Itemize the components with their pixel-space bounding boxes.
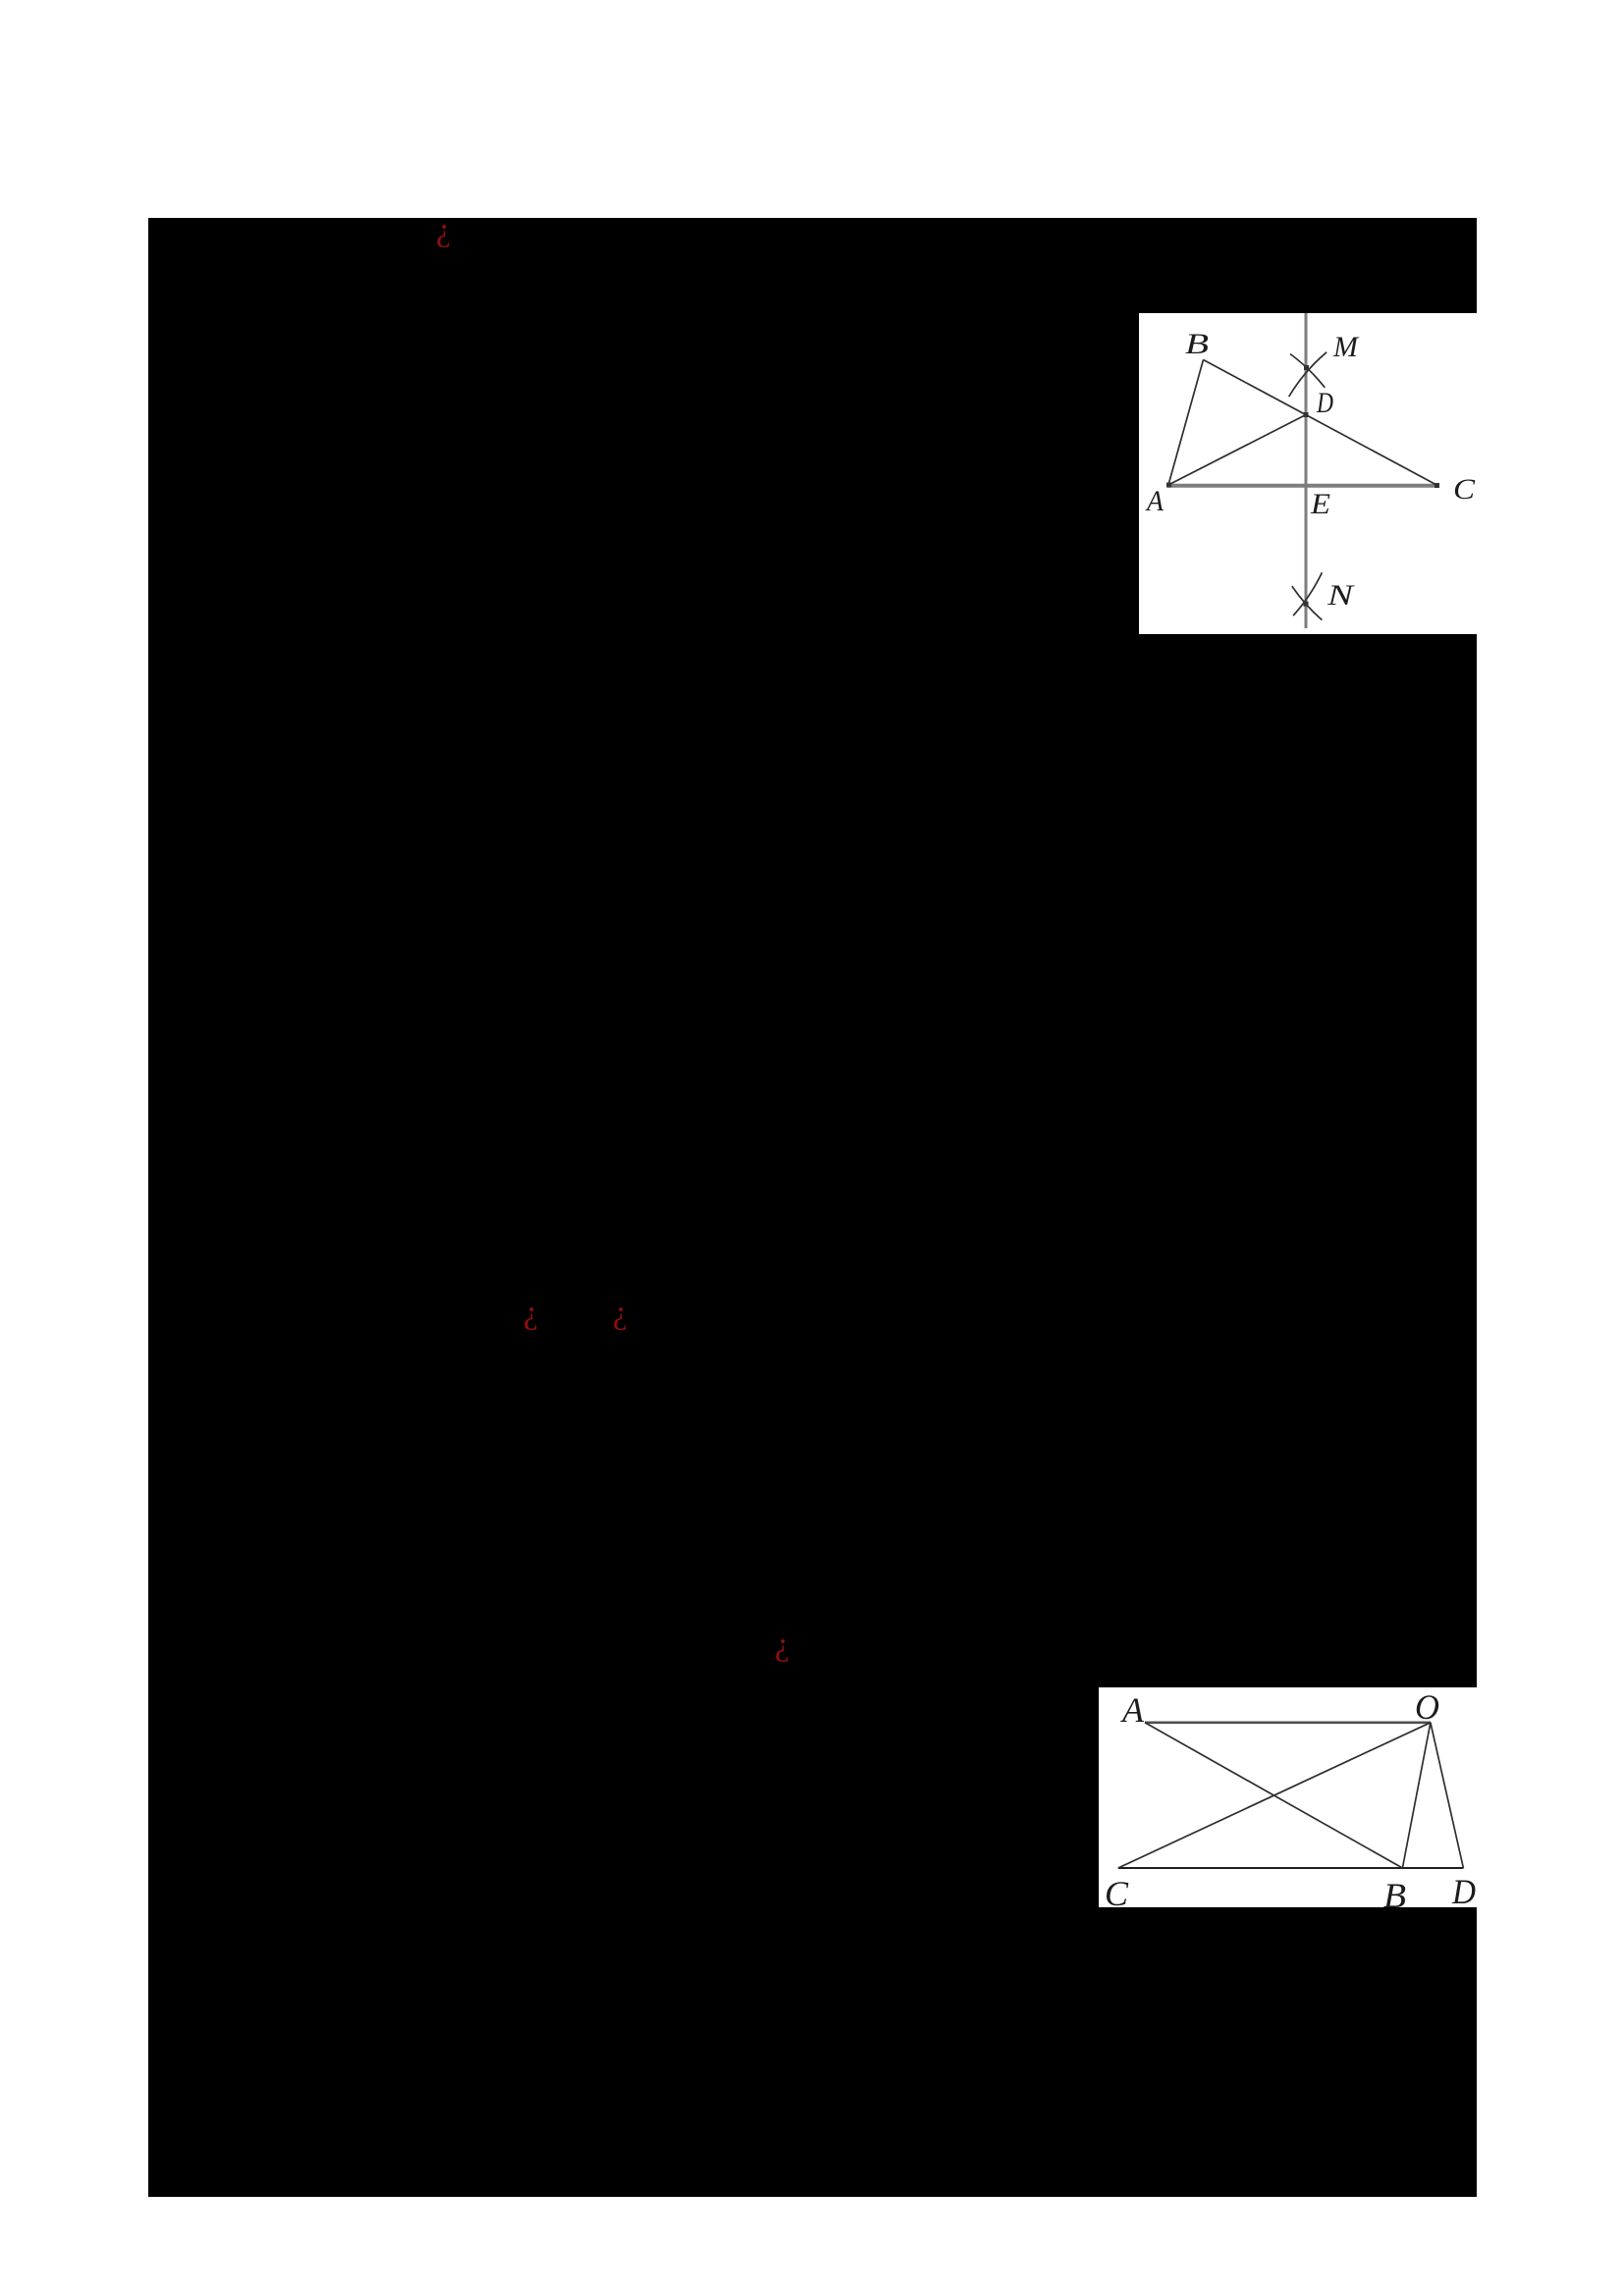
svg-text:¿: ¿ — [775, 1627, 789, 1663]
segment AO (top gray line) — [1145, 1722, 1431, 1725]
svg-text:M: M — [1332, 331, 1360, 363]
node C — [1435, 483, 1439, 488]
black highlighted text block: band left of figure 1 — [148, 313, 1139, 634]
svg-text:O: O — [1415, 1687, 1439, 1727]
segment OD — [1431, 1723, 1464, 1868]
black highlighted text block: bottom band — [148, 1907, 1477, 2197]
svg-text:A: A — [1145, 485, 1164, 517]
segment OB — [1402, 1723, 1431, 1868]
side BC through D — [1204, 360, 1438, 486]
compass arc (center A) at M — [1290, 354, 1325, 388]
perpendicular bisector line MN (vertical gray) — [1305, 313, 1308, 628]
compass arc (center C) at M — [1289, 352, 1326, 397]
node A — [1166, 483, 1171, 488]
node M crossing — [1304, 365, 1309, 370]
segment CD (bottom line through B) — [1118, 1867, 1464, 1869]
black highlighted text block: middle band — [148, 634, 1477, 1687]
svg-text:B: B — [1383, 1876, 1406, 1915]
segment AB — [1145, 1723, 1402, 1868]
segment AC (horizontal gray) — [1167, 484, 1438, 488]
black highlighted text block: top band — [148, 218, 1477, 313]
svg-text:E: E — [1310, 488, 1330, 520]
side AB — [1168, 360, 1204, 486]
svg-text:¿: ¿ — [436, 212, 451, 248]
svg-text:C: C — [1453, 473, 1476, 506]
svg-text:N: N — [1326, 579, 1356, 612]
svg-text:D: D — [1451, 1872, 1476, 1911]
compass arc (center C) at N — [1292, 586, 1323, 620]
svg-text:¿: ¿ — [523, 1295, 538, 1331]
black highlighted text block: band left of figure 2 — [148, 1687, 1099, 1907]
segment AD — [1168, 415, 1306, 486]
compass arc (center A) at N — [1293, 572, 1322, 615]
segment CO — [1118, 1723, 1431, 1868]
svg-text:C: C — [1105, 1874, 1129, 1913]
node D — [1304, 412, 1309, 417]
svg-text:A: A — [1120, 1690, 1145, 1730]
svg-text:B: B — [1185, 328, 1209, 360]
svg-text:¿: ¿ — [613, 1295, 627, 1331]
node N crossing — [1304, 602, 1309, 607]
svg-text:D: D — [1316, 387, 1333, 419]
